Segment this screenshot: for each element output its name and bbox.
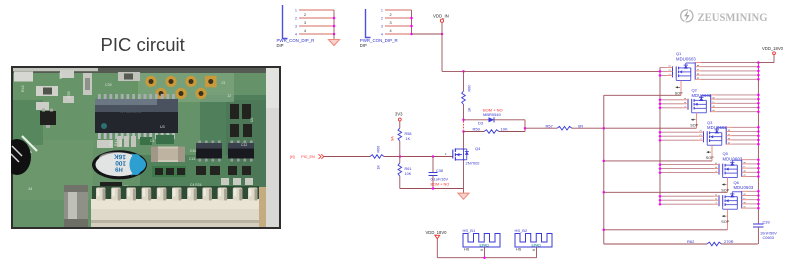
svg-text:8: 8: [697, 64, 700, 66]
svg-text:3: 3: [390, 21, 392, 25]
svg-text:3: 3: [669, 65, 672, 67]
wire W3 to Q2 gate: [603, 127, 697, 130]
svg-text:6: 6: [744, 201, 747, 203]
svg-text:6: 6: [744, 170, 747, 172]
transistor Q4 2N7002: [445, 146, 481, 166]
svg-text:2: 2: [700, 134, 703, 136]
Q5 gate stub and SOP mark: [721, 178, 729, 193]
power flag VDD_18V0 bottom: [426, 230, 448, 239]
power flag VDD_18V0 top: [758, 46, 783, 63]
resistor R58: [398, 128, 411, 157]
svg-text:1: 1: [700, 138, 703, 140]
svg-text:EPAD: EPAD: [532, 243, 542, 247]
svg-text:R58: R58: [405, 132, 412, 136]
transistor Q5 MDU0603: [719, 151, 743, 177]
svg-text:MDU0603: MDU0603: [734, 185, 754, 190]
svg-text:7: 7: [697, 68, 700, 70]
photo: electrolytic capacitor: [92, 150, 147, 189]
svg-text:SOP: SOP: [675, 91, 683, 95]
wire W2 to Q1 gate: [604, 94, 681, 96]
svg-text:5: 5: [728, 142, 731, 144]
resistor R57 0R: [525, 123, 604, 130]
Q1 left pin stubs: [659, 65, 673, 77]
svg-text:HS: HS: [464, 248, 470, 252]
svg-text:2: 2: [304, 13, 306, 17]
svg-text:Q4: Q4: [475, 146, 481, 151]
photo: white connector: [91, 186, 266, 227]
transistor Q2 MDU0603: [688, 88, 712, 113]
resistor R60: [462, 71, 472, 119]
svg-text:2: 2: [669, 69, 672, 71]
ground under Q4: [458, 189, 469, 200]
wire W6 to Q6 gate: [603, 229, 728, 232]
svg-text:C39: C39: [763, 220, 770, 225]
wire heatsink EPAD rail: [437, 239, 536, 259]
bus V1 gate-drive vertical: [603, 95, 605, 244]
svg-text:SOP: SOP: [706, 156, 714, 160]
svg-text:5: 5: [744, 206, 747, 208]
Q3 gate stub and SOP mark: [706, 145, 714, 161]
svg-text:8: 8: [744, 161, 747, 163]
connector P1 PWR_CON_DIP_R: [283, 5, 298, 39]
svg-text:BOM + NO: BOM + NO: [431, 183, 450, 187]
svg-text:C12: C12: [241, 143, 247, 147]
bus V2 source vertical: [659, 67, 661, 204]
P2 pin wires: [385, 10, 413, 35]
wire Q1 top pin row to VDD_18V0: [701, 62, 758, 64]
power flag VDD_IN: [433, 13, 449, 34]
Q6 right pin stubs: [742, 190, 760, 209]
Q3 right pin stubs: [726, 126, 759, 145]
svg-text:5: 5: [713, 109, 716, 111]
heatsink HS_B1: [463, 228, 501, 252]
svg-text:2: 2: [381, 16, 383, 20]
connector P2 PWR_CON_DIP_R: [366, 8, 384, 37]
svg-text:7: 7: [713, 101, 716, 103]
svg-text:HS_B1: HS_B1: [463, 228, 476, 233]
svg-text:3V3: 3V3: [395, 112, 403, 117]
Q2 gate stub and SOP mark: [690, 113, 698, 128]
bus V3 drain vertical: [757, 63, 759, 225]
resistor R59 10K: [462, 127, 525, 134]
svg-text:3: 3: [295, 24, 297, 28]
wire W1 VDD_IN rail to Q1: [464, 70, 661, 72]
svg-text:C39: C39: [105, 83, 112, 87]
svg-text:3: 3: [381, 24, 383, 28]
svg-text:1: 1: [445, 152, 447, 156]
Q1 right pin stubs: [695, 61, 759, 80]
svg-text:9A: 9A: [390, 136, 395, 141]
svg-text:R39: R39: [119, 140, 123, 146]
wire W5 to Q5 gate: [603, 191, 728, 194]
svg-text:7: 7: [728, 133, 731, 135]
svg-text:3: 3: [715, 162, 718, 164]
svg-text:6: 6: [728, 137, 731, 139]
svg-text:3: 3: [304, 21, 306, 25]
wire W7 bottom rail: [604, 243, 758, 245]
svg-text:1K: 1K: [406, 137, 411, 141]
svg-text:C13: C13: [189, 157, 195, 161]
ground under P1: [329, 34, 340, 46]
svg-text:R40: R40: [109, 140, 113, 146]
svg-text:R60: R60: [468, 85, 472, 92]
Q3 left pin stubs: [659, 130, 704, 142]
photo: metal bracket: [64, 185, 88, 227]
svg-text:10K: 10K: [501, 127, 508, 132]
svg-text:R61: R61: [405, 167, 412, 171]
svg-text:R57: R57: [59, 72, 63, 79]
Q6 gate stub and SOP mark: [721, 209, 729, 230]
svg-text:5: 5: [744, 174, 747, 176]
svg-text:DIP: DIP: [277, 43, 284, 48]
Q6 left pin stubs: [659, 194, 719, 206]
svg-text:270R: 270R: [724, 239, 734, 244]
svg-text:[H]: [H]: [290, 155, 295, 159]
svg-text:10K: 10K: [405, 172, 412, 176]
svg-text:MDU0603: MDU0603: [676, 56, 696, 61]
photo: gold through-hole pads row 1: [145, 76, 226, 88]
svg-text:4: 4: [381, 32, 383, 36]
capacitor C38: [429, 157, 450, 189]
svg-text:2: 2: [715, 166, 718, 168]
svg-text:3: 3: [684, 97, 687, 99]
resistor R66: [370, 146, 384, 170]
svg-text:R42: R42: [21, 85, 25, 92]
photo: gold through-hole pads row 2: [155, 88, 232, 99]
svg-text:0R: 0R: [578, 123, 583, 128]
resistor R61 10K: [398, 157, 412, 189]
svg-text:U3: U3: [160, 125, 165, 129]
svg-text:R62: R62: [687, 239, 695, 244]
svg-text:HS: HS: [516, 248, 522, 252]
svg-text:R59: R59: [67, 91, 71, 98]
svg-text:0.1uF/16V: 0.1uF/16V: [431, 178, 449, 182]
svg-text:1K: 1K: [468, 107, 472, 112]
svg-text:2: 2: [295, 16, 297, 20]
svg-text:ZEUSMINING: ZEUSMINING: [698, 10, 768, 24]
svg-text:1: 1: [669, 73, 672, 75]
wire PIC_EN to R66: [324, 156, 370, 158]
svg-text:8: 8: [728, 129, 731, 131]
Q2 right pin stubs: [711, 94, 760, 113]
svg-text:VDD_IN: VDD_IN: [433, 13, 449, 18]
photo: small SMD parts and silkscreen: [14, 70, 254, 193]
P1 pin wires: [299, 10, 335, 35]
svg-text:3: 3: [715, 194, 718, 196]
wire Q4 drain up: [463, 132, 465, 150]
svg-text:R41: R41: [114, 140, 118, 146]
svg-text:VDD_18V0: VDD_18V0: [426, 230, 448, 235]
Q5 left pin stubs: [659, 162, 719, 174]
transistor Q3 MDU0603: [704, 120, 728, 145]
svg-text:EPAD: EPAD: [480, 243, 490, 247]
photo: two SOIC-8 chips: [196, 141, 254, 162]
svg-text:MBR0540: MBR0540: [483, 112, 502, 117]
transistor Q6 MDU0603: [719, 180, 754, 209]
wire Q4 source down: [463, 160, 465, 189]
Q5 right pin stubs: [742, 158, 760, 177]
PCB photo frame: [12, 67, 280, 228]
svg-text:2: 2: [715, 198, 718, 200]
svg-text:4: 4: [390, 29, 392, 33]
svg-text:C79B4845: C79B4845: [120, 109, 142, 114]
dashed not-fitted segment: [463, 121, 465, 130]
svg-text:4: 4: [304, 29, 306, 33]
svg-text:8: 8: [744, 193, 747, 195]
svg-text:DIP: DIP: [360, 43, 367, 48]
photo: main SOIC IC: [95, 94, 178, 139]
wire Q4 source rail: [400, 187, 464, 190]
svg-text:SOP: SOP: [721, 189, 729, 193]
diode D3 MBR0540: [464, 107, 526, 125]
Q1 gate stub and SOP mark: [675, 80, 683, 95]
svg-text:U2: U2: [250, 118, 254, 122]
svg-text:1: 1: [684, 105, 687, 107]
svg-text:6: 6: [713, 105, 716, 107]
photo: black inductor at left edge: [3, 139, 31, 175]
svg-text:C1: C1: [150, 139, 154, 143]
wire VDD_IN down to row: [412, 33, 465, 73]
svg-text:3: 3: [700, 130, 703, 132]
svg-text:C10: C10: [190, 149, 196, 153]
svg-text:R57: R57: [546, 123, 554, 128]
Q2 left pin stubs: [659, 97, 688, 109]
svg-text:1: 1: [715, 202, 718, 204]
svg-text:16K: 16K: [114, 152, 127, 160]
wire D3/R59 right junction: [524, 120, 527, 132]
svg-text:5: 5: [697, 77, 700, 79]
svg-text:7: 7: [744, 166, 747, 168]
svg-text:4: 4: [295, 32, 297, 36]
svg-text:D3: D3: [478, 121, 484, 126]
svg-text:6: 6: [697, 73, 700, 75]
svg-text:R66: R66: [377, 146, 381, 153]
logo ZEUSMINING: [681, 8, 768, 24]
svg-text:8: 8: [713, 97, 716, 99]
resistor R62 270R: [687, 239, 734, 246]
svg-text:VDD_18V0: VDD_18V0: [762, 46, 784, 51]
capacitor C39: [753, 220, 777, 244]
wire W4 to Q3 gate: [603, 160, 712, 163]
power flag 3V3: [395, 112, 403, 129]
svg-text:7: 7: [744, 197, 747, 199]
net label PIC_EN: [290, 154, 324, 159]
svg-text:C38: C38: [436, 169, 443, 173]
svg-text:2: 2: [684, 101, 687, 103]
svg-text:HS_B2: HS_B2: [515, 228, 528, 233]
photo: MLCC component: [151, 147, 185, 163]
svg-text:PIC_EN: PIC_EN: [301, 155, 315, 159]
svg-text:SOP: SOP: [721, 220, 729, 224]
node D3 anode: [462, 119, 465, 122]
svg-text:1K: 1K: [377, 164, 381, 169]
svg-text:1: 1: [381, 8, 383, 12]
svg-text:SOP: SOP: [690, 124, 698, 128]
svg-text:R59: R59: [473, 127, 481, 132]
svg-text:1: 1: [295, 8, 297, 12]
heatsink HS_B2: [515, 228, 553, 252]
svg-text:PIC circuit: PIC circuit: [101, 34, 185, 55]
svg-text:2N7002: 2N7002: [466, 161, 481, 166]
svg-text:1: 1: [715, 170, 718, 172]
svg-text:C0603: C0603: [763, 235, 774, 240]
svg-text:2: 2: [390, 13, 392, 17]
wire R66 to Q4 gate: [384, 155, 452, 158]
transistor Q1 MDU0603: [673, 51, 697, 80]
